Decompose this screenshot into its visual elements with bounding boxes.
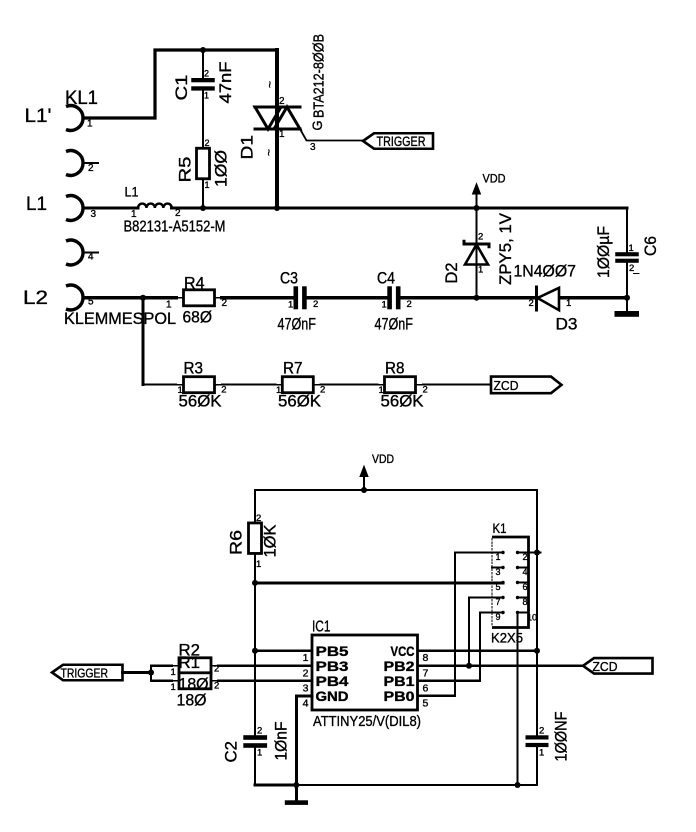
svg-text:5: 5 — [423, 697, 429, 709]
svg-text:1N4ØØ7: 1N4ØØ7 — [514, 263, 577, 281]
svg-text:10: 10 — [527, 613, 537, 623]
svg-text:R1: R1 — [179, 654, 201, 672]
svg-text:VDD: VDD — [483, 172, 506, 186]
svg-text:1: 1 — [539, 748, 544, 759]
svg-text:1: 1 — [288, 300, 293, 311]
svg-text:1ØnF: 1ØnF — [273, 722, 291, 761]
svg-text:TRIGGER: TRIGGER — [61, 666, 109, 681]
svg-text:2: 2 — [478, 232, 483, 243]
svg-text:R3: R3 — [184, 360, 204, 378]
svg-text:2: 2 — [313, 299, 318, 310]
svg-text:D1: D1 — [239, 135, 257, 160]
svg-text:1: 1 — [379, 385, 384, 396]
svg-text:L1: L1 — [26, 194, 47, 215]
svg-text:PB5: PB5 — [316, 644, 350, 659]
svg-text:2: 2 — [279, 96, 285, 107]
svg-text:2: 2 — [303, 667, 309, 679]
svg-text:3: 3 — [496, 567, 501, 577]
svg-text:4: 4 — [523, 567, 528, 577]
svg-text:68Ø: 68Ø — [183, 309, 213, 327]
svg-text:PB4: PB4 — [316, 674, 350, 689]
svg-text:56ØK: 56ØK — [381, 393, 424, 411]
svg-text:KL1: KL1 — [65, 88, 98, 109]
svg-text:ZPY5, 1V: ZPY5, 1V — [497, 213, 515, 285]
svg-text:VDD: VDD — [372, 452, 394, 466]
svg-text:2: 2 — [256, 513, 261, 524]
svg-text:6: 6 — [523, 582, 528, 592]
svg-text:VCC: VCC — [391, 644, 415, 659]
svg-text:BTA212-8ØØB: BTA212-8ØØB — [311, 34, 328, 118]
svg-text:3: 3 — [310, 142, 316, 153]
svg-text:1: 1 — [256, 559, 261, 570]
svg-text:KLEMMESPOL: KLEMMESPOL — [64, 309, 176, 328]
svg-text:C6: C6 — [642, 236, 660, 256]
svg-text:2: 2 — [214, 681, 219, 692]
svg-text:ZCD: ZCD — [494, 379, 519, 393]
svg-text:~: ~ — [262, 149, 276, 156]
svg-text:1: 1 — [566, 298, 571, 309]
svg-text:D2: D2 — [443, 263, 461, 284]
svg-text:PB3: PB3 — [316, 659, 350, 674]
svg-text:2: 2 — [529, 298, 534, 309]
svg-text:2: 2 — [88, 163, 94, 174]
svg-text:~: ~ — [263, 81, 277, 88]
svg-text:18Ø: 18Ø — [177, 692, 207, 710]
svg-text:56ØK: 56ØK — [278, 393, 321, 411]
svg-text:2: 2 — [629, 263, 634, 274]
svg-text:1: 1 — [276, 385, 281, 396]
svg-text:1: 1 — [629, 243, 634, 254]
svg-text:2: 2 — [221, 385, 226, 396]
svg-text:C3: C3 — [280, 270, 298, 288]
svg-text:2: 2 — [205, 138, 210, 148]
svg-text:1: 1 — [478, 265, 483, 276]
svg-text:2: 2 — [204, 69, 209, 79]
svg-text:2: 2 — [257, 726, 262, 737]
svg-text:1: 1 — [166, 300, 172, 311]
svg-text:GND: GND — [316, 689, 349, 704]
svg-text:2: 2 — [407, 299, 412, 310]
svg-text:1: 1 — [171, 682, 176, 693]
svg-text:1ØØ: 1ØØ — [213, 150, 231, 187]
svg-text:TRIGGER: TRIGGER — [377, 134, 426, 149]
svg-text:2: 2 — [423, 385, 428, 396]
svg-text:1ØØµF: 1ØØµF — [595, 226, 613, 278]
svg-text:47nF: 47nF — [217, 62, 235, 104]
svg-text:L1': L1' — [25, 106, 52, 127]
svg-text:3: 3 — [91, 209, 97, 220]
svg-text:2: 2 — [320, 385, 325, 396]
svg-text:3: 3 — [303, 682, 309, 694]
svg-text:IC1: IC1 — [312, 619, 331, 636]
svg-text:1: 1 — [279, 129, 285, 140]
svg-text:1: 1 — [87, 119, 93, 130]
svg-text:1: 1 — [171, 667, 176, 678]
svg-text:L1: L1 — [125, 184, 139, 200]
svg-text:R5: R5 — [177, 157, 195, 183]
svg-text:1: 1 — [303, 652, 309, 664]
svg-text:2: 2 — [175, 208, 181, 219]
svg-text:2: 2 — [523, 552, 528, 562]
svg-text:C4: C4 — [377, 270, 395, 288]
svg-text:R6: R6 — [228, 530, 246, 555]
svg-text:D3: D3 — [556, 316, 578, 334]
svg-text:C2: C2 — [223, 741, 241, 763]
svg-text:47ØnF: 47ØnF — [278, 316, 317, 334]
svg-text:8: 8 — [523, 597, 528, 607]
svg-text:1: 1 — [257, 748, 262, 759]
svg-text:PB0: PB0 — [384, 689, 415, 704]
svg-text:47ØnF: 47ØnF — [375, 316, 414, 334]
svg-text:PB2: PB2 — [384, 659, 415, 674]
svg-text:ZCD: ZCD — [593, 660, 618, 674]
svg-text:K1: K1 — [493, 520, 507, 536]
svg-text:G: G — [309, 121, 325, 131]
svg-text:R4: R4 — [184, 275, 205, 293]
svg-text:2: 2 — [214, 664, 219, 675]
svg-text:B82131-A5152-M: B82131-A5152-M — [124, 219, 226, 236]
svg-text:L2: L2 — [23, 288, 48, 309]
svg-text:1: 1 — [178, 385, 183, 396]
svg-text:4: 4 — [303, 697, 309, 709]
svg-text:7: 7 — [423, 667, 429, 679]
svg-text:1: 1 — [131, 209, 137, 220]
svg-text:2: 2 — [539, 726, 544, 737]
svg-text:R8: R8 — [385, 360, 405, 378]
svg-text:ATTINY25/V(DIL8): ATTINY25/V(DIL8) — [313, 713, 421, 730]
svg-text:C1: C1 — [173, 75, 191, 101]
svg-text:R7: R7 — [283, 360, 303, 378]
svg-text:1: 1 — [205, 180, 210, 190]
svg-text:1ØK: 1ØK — [262, 525, 280, 558]
svg-text:56ØK: 56ØK — [179, 393, 222, 411]
svg-text:PB1: PB1 — [384, 674, 416, 689]
svg-text:1: 1 — [382, 300, 387, 311]
svg-text:1: 1 — [204, 91, 209, 101]
svg-text:6: 6 — [423, 682, 429, 694]
svg-text:1ØØNF: 1ØØNF — [553, 712, 571, 762]
svg-text:4: 4 — [88, 252, 94, 263]
svg-text:2: 2 — [222, 298, 228, 309]
svg-text:8: 8 — [423, 652, 429, 664]
